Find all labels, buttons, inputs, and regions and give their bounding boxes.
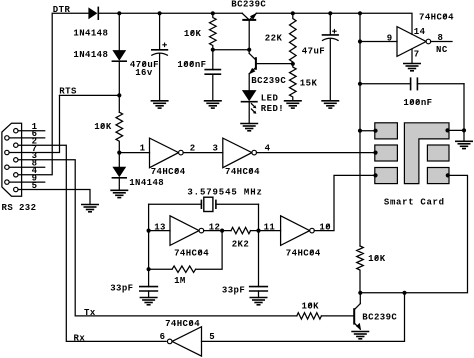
junction R2/U1a input [117,151,121,155]
junction rail/x360 [358,11,362,15]
junction card arm right [445,128,449,132]
junction RTS/D2 column [117,93,121,97]
wire pad R3 to right bus [360,175,467,292]
junction pad L1 [373,129,377,133]
wire U1b out to smart card pad C2 [257,152,376,154]
svg-text:1N4148: 1N4148 [73,28,108,38]
junction rail/D2 [117,11,121,15]
ground for C6 [250,298,266,305]
J1 pin circles [5,129,18,192]
svg-text:74HC04: 74HC04 [174,248,209,258]
inverter U1a 74HC04 [140,138,196,177]
svg-text:BC239C: BC239C [362,313,397,323]
ground for pin5 [82,205,98,212]
svg-text:NC: NC [436,45,448,55]
inverter U1e 74HC04 (Rx, facing left) [160,319,215,356]
LED D4 [242,74,257,124]
wire x360 vertical bus [359,13,361,246]
svg-text:1M: 1M [174,276,186,286]
junction pin13 [147,229,151,233]
wire pin9 to U1f [360,41,397,43]
wire 1M feedback row [149,231,173,270]
wire top rail right segment to pin14 [256,13,412,34]
resistor R2 10K vertical [116,112,123,152]
smart card contact pad L3 [375,168,398,184]
svg-text:LED: LED [261,94,279,104]
wire pin7 to RTS vertical [10,95,60,152]
capacitor C1 470uF electrolytic [152,13,168,101]
svg-text:74HC04: 74HC04 [286,248,321,258]
svg-text:BC239C: BC239C [251,76,286,86]
svg-text:7: 7 [414,49,420,59]
crystal X1 [149,197,259,211]
svg-text:BC239C: BC239C [231,0,266,9]
svg-text:100nF: 100nF [177,60,206,70]
capacitor C3 47uF electrolytic [323,13,339,101]
svg-text:RED!: RED! [261,104,284,114]
wire pin1 stub [18,130,44,132]
wire crystal left down to pin13 [148,204,150,230]
smart card contact pad L1 [375,123,398,139]
diode D3 1N4148 vertical [112,153,126,191]
wire pin3 to Tx vertical [18,160,296,316]
svg-text:3: 3 [213,144,219,154]
LED light arrows [251,104,256,114]
junction x360/C4 [358,82,362,86]
svg-text:33pF: 33pF [110,283,133,293]
capacitor C4 100nF horizontal [360,78,464,89]
junction pad L2 [373,151,377,155]
svg-text:8: 8 [438,33,444,43]
resistor R7 1M horizontal [172,266,196,272]
wire U1d out up to pad L3 [314,175,375,230]
svg-text:11: 11 [264,222,276,232]
svg-text:22K: 22K [265,34,283,44]
ground for C5 [140,298,156,305]
ground for U1f pin7 [404,64,420,71]
capacitor C2 100nF [205,50,220,101]
svg-text:9: 9 [387,34,393,44]
svg-text:Rx: Rx [74,334,86,344]
junction R5/Q3 collector [358,291,362,295]
wire pin13 node to U1c [149,230,170,232]
transistor Q3 BC239C [354,293,361,330]
capacitor C5 33pF [140,269,158,297]
junction pad L3 [373,173,377,177]
wire crystal right down to pin11 [258,204,260,230]
ground for C1 [151,101,167,108]
slashed-zero marks on labels [101,14,447,325]
junction pad R3 [446,173,450,177]
J1 pin numbers [32,122,38,191]
svg-text:1N4148: 1N4148 [129,178,164,188]
wire 1M to pin12 vertical [196,231,223,270]
junction rail/R1 [211,11,215,15]
svg-text:74HC04: 74HC04 [165,319,200,329]
svg-text:14: 14 [414,27,426,37]
resistor R3 22K vertical [290,13,297,64]
svg-text:74HC04: 74HC04 [225,167,260,177]
wire node to U1a input [119,152,149,154]
ground for R4 [285,101,301,108]
resistor R6 2K2 horizontal [231,227,251,233]
svg-text:10K: 10K [302,301,320,311]
svg-text:15K: 15K [300,78,318,88]
resistor R8 10K horizontal (Tx base) [297,313,322,319]
junction 1M/C5 [147,267,151,271]
junction x360/pad wire [358,129,362,133]
ground for Q3 emitter [352,332,368,339]
svg-text:47uF: 47uF [302,46,325,56]
svg-text:2K2: 2K2 [232,240,249,250]
capacitor C6 33pF [250,231,268,298]
wire card arm to ground node [447,129,464,131]
svg-text:74HC04: 74HC04 [419,12,454,22]
svg-text:1N4148: 1N4148 [73,50,108,60]
ground for LED [241,124,257,131]
wire U1e input from right bus [202,293,405,342]
svg-text:10K: 10K [94,122,112,132]
svg-text:13: 13 [154,222,166,232]
wire R6 to U1d [251,230,281,232]
inverter U1d 74HC04 [264,216,331,259]
smart card contact pad L2 [375,145,398,161]
svg-text:Tx: Tx [84,308,96,318]
svg-text:3.579545 MHz: 3.579545 MHz [187,187,262,197]
ground for D3 [111,190,127,197]
wire pin6 stub [10,137,45,139]
wire top rail left segment [98,12,242,14]
junction rail/C3 [328,11,332,15]
ground for C2 [205,101,221,108]
junction R3/R4/Q2 base [291,62,295,66]
smart card contact pad R3 [427,168,449,184]
smart card center contact (L-shape) [404,123,449,184]
junction x360/pin9 [358,39,362,43]
wire U1a out to U1b in [183,152,223,154]
svg-text:DTR: DTR [53,5,71,15]
wire C4 right down to ground node [463,84,465,142]
resistor R1 10K vertical [210,13,217,49]
svg-text:74HC04: 74HC04 [151,167,186,177]
ground for C4 / card contact [456,141,472,148]
transistor Q2 BC239C [249,50,293,75]
diode D2 1N4148 vertical [112,13,126,112]
wire pin2 to Rx vertical [18,145,166,341]
RS232 connector J1 outline [2,123,22,196]
wire U1c out to R6 [204,230,231,232]
wire R8 to Q3 base [321,315,354,317]
inverter U1b 74HC04 [213,138,271,177]
svg-text:5: 5 [209,332,215,342]
svg-text:33pF: 33pF [222,285,245,295]
svg-text:10K: 10K [368,254,386,264]
junction C4/card arm [462,128,466,132]
resistor R5 10K vertical (card pullup) [357,246,364,293]
svg-text:Smart Card: Smart Card [384,197,445,207]
junction rail/C1 [158,11,162,15]
svg-text:1: 1 [140,144,146,154]
junction R1/C2/Q1 tee [211,48,252,52]
svg-text:100nF: 100nF [403,98,432,108]
svg-text:6: 6 [160,332,166,342]
wire pin8 stub [10,166,45,168]
smart card contact pad R2 [427,145,449,161]
svg-text:RS 232: RS 232 [2,203,37,213]
junction pin11/crystal/C6 [256,229,260,233]
inverter U1f 74HC04 top right [387,12,454,63]
transistor Q1 BC239C [242,13,257,50]
diode D1 1N4148 horizontal [88,7,98,19]
wire RTS horizontal [60,94,120,96]
svg-text:10K: 10K [184,29,202,39]
junction rail/R3 [291,11,295,15]
resistor R4 15K vertical [290,64,297,101]
svg-text:16v: 16v [135,68,153,78]
wire pin4 to DTR vertical [18,13,88,175]
wire pin9 stub [10,181,45,183]
wire x360 to pad L1 [360,130,375,132]
wire pin5 to ground [18,190,90,205]
ground for C3 [322,101,338,108]
junction Rx riser/bus [402,291,406,295]
junction pin12/1M [220,229,224,233]
inverter U1c 74HC04 [154,216,220,259]
